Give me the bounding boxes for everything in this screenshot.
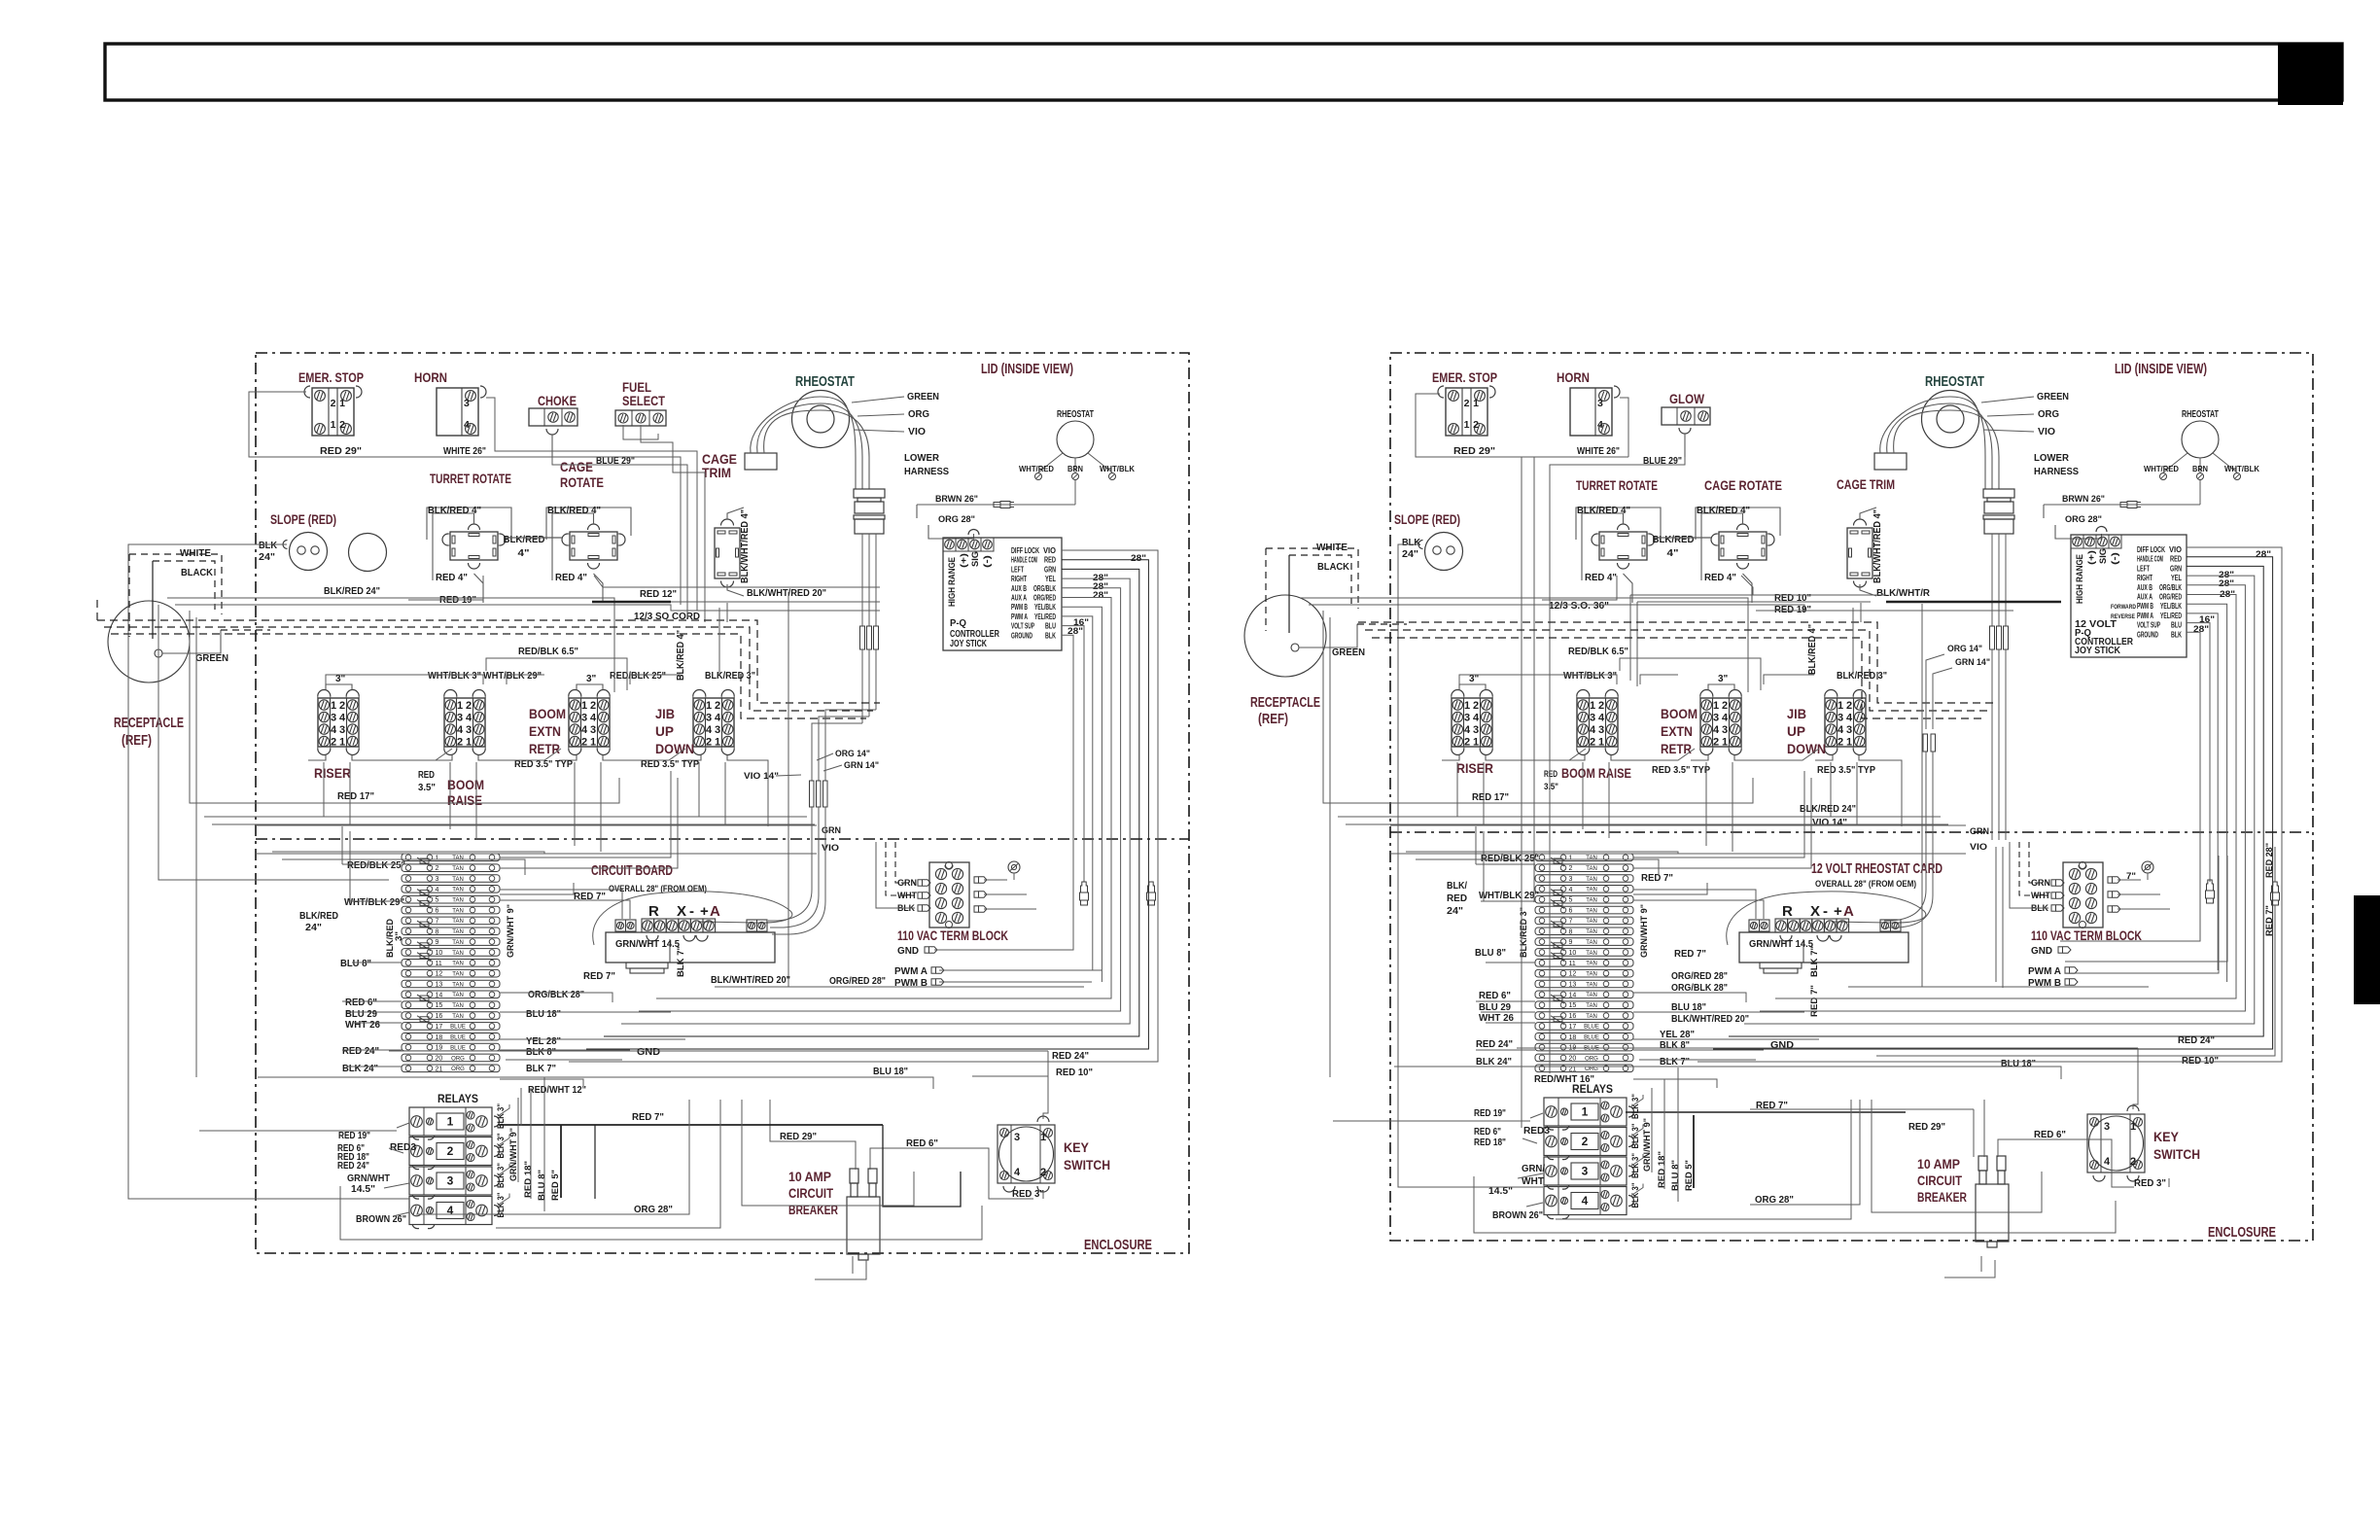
svg-text:RED 6": RED 6" xyxy=(1474,1127,1501,1137)
svg-text:UP: UP xyxy=(1787,723,1805,739)
svg-text:2: 2 xyxy=(581,737,587,749)
svg-text:CIRCUIT BOARD: CIRCUIT BOARD xyxy=(591,862,673,879)
svg-text:VIO 14": VIO 14" xyxy=(744,771,779,782)
svg-text:RED 19": RED 19" xyxy=(338,1131,370,1141)
svg-text:GRN: GRN xyxy=(822,825,841,836)
key switch and 10 amp circuit breaker (right) xyxy=(2087,1114,2145,1172)
svg-text:BLK/RED 4": BLK/RED 4" xyxy=(428,505,481,516)
svg-text:3: 3 xyxy=(1846,724,1852,736)
svg-text:RAISE: RAISE xyxy=(447,792,482,808)
svg-text:BLK/RED 3": BLK/RED 3" xyxy=(705,670,755,682)
svg-text:YEL/RED: YEL/RED xyxy=(1034,612,1056,621)
svg-text:BLUE: BLUE xyxy=(450,1025,466,1031)
svg-text:28": 28" xyxy=(1067,626,1083,636)
svg-text:BLU 18": BLU 18" xyxy=(873,1066,908,1077)
svg-text:BOOM: BOOM xyxy=(1661,706,1697,721)
turret rotate / cage rotate solenoid valves (left) xyxy=(450,532,498,560)
svg-text:FORWARD: FORWARD xyxy=(2111,604,2136,611)
svg-text:BLUE: BLUE xyxy=(450,1035,466,1041)
svg-text:2: 2 xyxy=(1713,737,1719,749)
svg-text:ORG/BLK 28": ORG/BLK 28" xyxy=(1671,982,1728,994)
svg-text:10: 10 xyxy=(1569,950,1577,957)
svg-text:LEFT: LEFT xyxy=(2137,564,2150,573)
svg-text:21: 21 xyxy=(436,1066,443,1072)
svg-text:2: 2 xyxy=(1464,737,1470,749)
svg-text:BREAKER: BREAKER xyxy=(1917,1190,1967,1205)
svg-text:WHT/BLK 29": WHT/BLK 29" xyxy=(1479,890,1539,901)
svg-text:RETR: RETR xyxy=(529,741,560,756)
svg-text:RHEOSTAT: RHEOSTAT xyxy=(1057,408,1094,420)
svg-text:BLK/RED 3": BLK/RED 3" xyxy=(1519,907,1529,958)
svg-text:RED 3.5" TYP: RED 3.5" TYP xyxy=(1817,764,1875,776)
svg-text:RED 17": RED 17" xyxy=(1472,791,1509,803)
svg-text:DIFF LOCK: DIFF LOCK xyxy=(2137,545,2165,554)
svg-text:4: 4 xyxy=(1722,713,1729,724)
svg-text:1: 1 xyxy=(1569,855,1573,861)
svg-text:EXTN: EXTN xyxy=(1661,723,1693,739)
svg-text:ORG 28": ORG 28" xyxy=(634,1204,673,1215)
svg-text:UP: UP xyxy=(655,723,674,739)
svg-text:24": 24" xyxy=(1447,905,1463,917)
long horizontal harness wires (left) xyxy=(204,816,807,818)
svg-text:4: 4 xyxy=(1837,724,1844,736)
svg-text:YEL/BLK: YEL/BLK xyxy=(1034,603,1056,612)
svg-text:BOOM: BOOM xyxy=(447,777,484,792)
svg-text:3: 3 xyxy=(590,724,596,736)
svg-text:TAN: TAN xyxy=(1586,898,1597,904)
relay coil connection wires (right) xyxy=(1530,1113,1543,1118)
svg-text:BROWN 26": BROWN 26" xyxy=(1492,1209,1543,1221)
svg-text:5: 5 xyxy=(1569,897,1573,904)
wires BLK/RED 24 and RED 17 (left) xyxy=(167,598,614,692)
header title bar xyxy=(105,44,2342,100)
enclosure dashed border (left) xyxy=(256,353,1189,1253)
svg-text:RED: RED xyxy=(1544,769,1557,780)
svg-text:2: 2 xyxy=(2130,1156,2136,1168)
svg-text:ORG: ORG xyxy=(1585,1067,1598,1072)
svg-text:GREEN: GREEN xyxy=(2037,391,2069,402)
svg-text:RED 19": RED 19" xyxy=(1774,604,1811,615)
svg-text:-: - xyxy=(689,903,694,920)
svg-text:LEFT: LEFT xyxy=(1011,565,1024,574)
svg-text:28": 28" xyxy=(1131,553,1146,563)
svg-text:17: 17 xyxy=(436,1024,443,1031)
svg-text:RHEOSTAT: RHEOSTAT xyxy=(2182,408,2219,420)
svg-text:AUX A: AUX A xyxy=(2137,593,2152,602)
page edge black tab xyxy=(2354,895,2380,1004)
svg-text:1: 1 xyxy=(1598,737,1604,749)
svg-text:7: 7 xyxy=(1569,918,1573,925)
svg-text:3: 3 xyxy=(581,713,587,724)
dashed feed wires to 110 VAC block (left) xyxy=(895,842,915,883)
svg-text:TAN: TAN xyxy=(452,982,464,988)
svg-text:RED/BLK 6.5": RED/BLK 6.5" xyxy=(1568,646,1628,657)
svg-text:3": 3" xyxy=(1718,674,1729,684)
svg-text:SIG: SIG xyxy=(2098,548,2109,564)
svg-text:VIO 14": VIO 14" xyxy=(1812,817,1847,828)
svg-text:BLK 7": BLK 7" xyxy=(526,1063,556,1074)
svg-text:RED 12": RED 12" xyxy=(640,588,677,600)
svg-text:RED 24": RED 24" xyxy=(342,1045,379,1057)
svg-text:3": 3" xyxy=(1469,674,1480,684)
svg-text:JIB: JIB xyxy=(655,706,675,721)
svg-text:BRN: BRN xyxy=(1067,464,1083,473)
long horizontal harness wires (right) xyxy=(1338,816,1941,818)
svg-text:15: 15 xyxy=(1569,1002,1577,1009)
wires RED/BLK 6.5 and 3 inch links (right) xyxy=(1620,658,1761,690)
joystick output wire staircase (left) xyxy=(569,550,1158,1062)
receptacle (ref) (left) xyxy=(108,601,190,682)
svg-text:RED 18": RED 18" xyxy=(1474,1137,1506,1148)
svg-text:CAGE ROTATE: CAGE ROTATE xyxy=(1704,477,1782,493)
svg-text:BLK/RED: BLK/RED xyxy=(1653,534,1695,545)
12/3 SO cord dashed bundle (right) xyxy=(1358,622,1998,703)
svg-text:GRN: GRN xyxy=(1044,565,1056,574)
svg-text:RED 7": RED 7" xyxy=(1641,872,1673,884)
wire BLK/WHT/RED 20 (right) xyxy=(1860,603,1862,622)
svg-text:PWM B: PWM B xyxy=(2137,602,2153,611)
svg-text:WHITE 26": WHITE 26" xyxy=(1577,445,1620,457)
svg-text:4: 4 xyxy=(706,724,713,736)
svg-text:RED 7": RED 7" xyxy=(632,1111,664,1123)
svg-text:JOY STICK: JOY STICK xyxy=(950,639,988,649)
svg-text:3: 3 xyxy=(1598,724,1604,736)
RISER contactor (right) xyxy=(1452,698,1492,747)
svg-text:14: 14 xyxy=(436,992,443,998)
svg-text:BLK 24": BLK 24" xyxy=(342,1063,378,1074)
svg-text:(REF): (REF) xyxy=(122,733,152,749)
svg-text:PWM A: PWM A xyxy=(2028,965,2061,977)
svg-text:(-): (-) xyxy=(2110,552,2120,565)
svg-text:3": 3" xyxy=(335,674,346,684)
svg-text:RECEPTACLE: RECEPTACLE xyxy=(1250,695,1320,711)
svg-text:RED/BLK 25": RED/BLK 25" xyxy=(347,859,405,871)
svg-text:3: 3 xyxy=(1837,713,1843,724)
svg-text:BLK: BLK xyxy=(1402,537,1420,548)
svg-text:VIO: VIO xyxy=(2169,545,2182,554)
svg-text:3.5": 3.5" xyxy=(418,783,436,793)
svg-text:3": 3" xyxy=(394,931,404,941)
svg-text:BLK 8": BLK 8" xyxy=(526,1046,556,1058)
svg-text:2: 2 xyxy=(1473,419,1479,431)
svg-text:TAN: TAN xyxy=(452,888,464,893)
svg-text:CIRCUIT: CIRCUIT xyxy=(788,1186,834,1201)
svg-text:2: 2 xyxy=(447,1144,454,1158)
svg-text:BLUE: BLUE xyxy=(1584,1035,1599,1041)
svg-text:AUX B: AUX B xyxy=(2137,583,2152,592)
svg-text:WHT/RED: WHT/RED xyxy=(2144,464,2179,473)
svg-text:RHEOSTAT: RHEOSTAT xyxy=(795,374,855,390)
svg-text:3: 3 xyxy=(1582,1165,1589,1178)
wires RED 29 / RED 6 / RED 3 to breaker and key switch (left) xyxy=(770,1100,856,1170)
svg-text:HARNESS: HARNESS xyxy=(2034,466,2079,477)
svg-text:BLACK: BLACK xyxy=(181,567,213,578)
svg-text:2: 2 xyxy=(1040,1167,1046,1178)
svg-text:GRN: GRN xyxy=(2170,564,2182,573)
svg-text:-: - xyxy=(1823,903,1828,920)
svg-text:TAN: TAN xyxy=(1586,971,1597,977)
wire RED 12 / RED 10 (left) xyxy=(594,576,880,587)
svg-text:A: A xyxy=(1843,903,1854,920)
svg-text:24": 24" xyxy=(305,922,322,933)
svg-text:3: 3 xyxy=(1473,724,1479,736)
svg-text:HARNESS: HARNESS xyxy=(904,466,949,477)
svg-text:4: 4 xyxy=(590,713,597,724)
wires: RED 29 / WHITE 26 / BLUE 29 runs (right) xyxy=(1416,394,1628,457)
svg-text:GRN/WHT 9": GRN/WHT 9" xyxy=(506,904,516,958)
svg-text:EMER. STOP: EMER. STOP xyxy=(298,369,364,385)
svg-text:1: 1 xyxy=(457,700,463,712)
110 VAC output spade wires and ground lug (left) xyxy=(984,879,1007,881)
svg-text:16: 16 xyxy=(436,1013,443,1020)
svg-text:28": 28" xyxy=(1093,590,1108,600)
svg-text:RED 5": RED 5" xyxy=(550,1170,561,1201)
svg-text:2: 2 xyxy=(1846,700,1852,712)
svg-text:RISER: RISER xyxy=(1456,760,1493,776)
lid/enclosure divider dashed line (left) xyxy=(256,838,1189,840)
svg-text:4: 4 xyxy=(447,1204,454,1217)
svg-text:YEL: YEL xyxy=(2171,574,2182,582)
svg-text:RED 3.5" TYP: RED 3.5" TYP xyxy=(1652,764,1710,776)
svg-text:WHT 26: WHT 26 xyxy=(345,1019,380,1031)
svg-text:RED 3": RED 3" xyxy=(2134,1177,2166,1189)
svg-text:3: 3 xyxy=(464,398,470,409)
svg-text:BOOM: BOOM xyxy=(529,706,566,721)
svg-text:X: X xyxy=(1810,903,1820,920)
header black square xyxy=(2278,43,2343,105)
svg-text:RED 6": RED 6" xyxy=(2034,1129,2066,1140)
svg-text:TAN: TAN xyxy=(1586,940,1597,946)
svg-text:BLK/: BLK/ xyxy=(1447,880,1467,892)
svg-text:CIRCUIT: CIRCUIT xyxy=(1917,1173,1963,1188)
svg-text:DOWN: DOWN xyxy=(1787,741,1826,756)
svg-text:4: 4 xyxy=(331,724,337,736)
svg-text:TAN: TAN xyxy=(1586,1003,1597,1009)
svg-text:4: 4 xyxy=(436,887,439,893)
svg-text:RED: RED xyxy=(1447,892,1467,904)
svg-text:BRN: BRN xyxy=(2192,464,2208,473)
svg-text:4: 4 xyxy=(466,713,472,724)
svg-text:WHITE: WHITE xyxy=(1316,542,1347,553)
svg-text:1: 1 xyxy=(706,700,712,712)
svg-text:RED: RED xyxy=(1044,556,1056,565)
svg-text:LOWER: LOWER xyxy=(2034,452,2069,464)
terminal strip left connection wires (right) xyxy=(1476,863,1535,865)
svg-text:4: 4 xyxy=(2104,1156,2111,1168)
JIB UP DOWN contactor (left) xyxy=(693,698,734,747)
key switch and 10 amp circuit breaker (left) xyxy=(997,1125,1055,1183)
svg-text:WHT/BLK: WHT/BLK xyxy=(1100,464,1136,473)
svg-text:BLU: BLU xyxy=(1045,622,1056,631)
svg-text:PWM A: PWM A xyxy=(1011,612,1028,621)
svg-text:CAGE TRIM: CAGE TRIM xyxy=(1837,476,1895,492)
svg-text:WHITE: WHITE xyxy=(180,547,211,559)
svg-text:3: 3 xyxy=(1597,398,1603,409)
svg-text:2: 2 xyxy=(1590,737,1595,749)
svg-text:HANDLE COM: HANDLE COM xyxy=(1011,556,1037,565)
svg-text:GRN/WHT 9": GRN/WHT 9" xyxy=(508,1128,519,1181)
lower harness cable wires crossing divider (right) xyxy=(1995,847,1997,982)
receptacle (ref) (right) xyxy=(1244,595,1326,677)
svg-text:TAN: TAN xyxy=(452,962,464,967)
svg-text:HORN: HORN xyxy=(414,369,447,385)
svg-text:1: 1 xyxy=(1846,737,1852,749)
svg-text:RED 4": RED 4" xyxy=(1704,572,1736,583)
svg-text:DOWN: DOWN xyxy=(655,741,694,756)
svg-text:GROUND: GROUND xyxy=(2137,630,2158,639)
svg-text:HANDLE COM: HANDLE COM xyxy=(2137,555,2163,564)
svg-text:X: X xyxy=(677,903,686,920)
contactor bottom drop wires (right) xyxy=(1456,762,1458,817)
svg-text:2: 2 xyxy=(457,737,463,749)
svg-text:4: 4 xyxy=(457,724,464,736)
svg-text:TAN: TAN xyxy=(1586,856,1597,861)
svg-text:VOLT SUP: VOLT SUP xyxy=(1011,622,1034,631)
GND / PWM A / PWM B wires (right) xyxy=(2060,892,2200,941)
110 VAC term block (right) xyxy=(2063,862,2103,927)
svg-text:1: 1 xyxy=(466,737,472,749)
svg-text:7: 7 xyxy=(436,918,439,925)
svg-text:1: 1 xyxy=(715,737,720,749)
svg-text:24": 24" xyxy=(259,551,275,563)
relay BLK 3 wires (right) xyxy=(1631,1095,1643,1106)
svg-text:RED 6": RED 6" xyxy=(906,1137,938,1149)
svg-text:BLACK: BLACK xyxy=(1317,561,1349,573)
svg-text:P-Q: P-Q xyxy=(950,618,966,629)
svg-text:110 VAC TERM BLOCK: 110 VAC TERM BLOCK xyxy=(897,928,1008,943)
wire BLK 24 from slope sensor (right) xyxy=(1398,544,1543,1187)
wires RED/BLK 6.5 and 3 inch links (left) xyxy=(486,658,627,690)
svg-text:RED 7": RED 7" xyxy=(1674,948,1706,960)
svg-text:15: 15 xyxy=(436,1002,443,1009)
P-Q controller joy stick (left) xyxy=(943,538,1062,650)
svg-text:8: 8 xyxy=(436,928,439,935)
svg-text:7": 7" xyxy=(2126,871,2136,882)
svg-text:4": 4" xyxy=(518,547,530,559)
svg-text:8: 8 xyxy=(1569,928,1573,935)
svg-text:ORG/RED 28": ORG/RED 28" xyxy=(829,975,886,987)
svg-text:4: 4 xyxy=(1582,1194,1589,1207)
svg-text:BLK/RED: BLK/RED xyxy=(504,534,545,545)
svg-text:ORG: ORG xyxy=(908,408,929,420)
svg-text:BLU 8": BLU 8" xyxy=(1670,1160,1681,1191)
svg-text:BLK/WHT/RED 20": BLK/WHT/RED 20" xyxy=(1671,1013,1749,1025)
svg-text:RED 6": RED 6" xyxy=(345,997,377,1008)
svg-text:4: 4 xyxy=(1473,713,1480,724)
svg-text:4: 4 xyxy=(1590,724,1596,736)
svg-text:9: 9 xyxy=(1569,939,1573,946)
wire BLK 24 from slope sensor (left) xyxy=(128,544,409,1199)
svg-text:ORG 28": ORG 28" xyxy=(938,514,975,525)
svg-text:BLK/WHT/RED 20": BLK/WHT/RED 20" xyxy=(747,587,826,599)
svg-text:2: 2 xyxy=(1722,700,1728,712)
svg-text:BOOM RAISE: BOOM RAISE xyxy=(1561,765,1631,781)
lid/enclosure divider dashed line (right) xyxy=(1390,831,2313,833)
svg-text:VIO: VIO xyxy=(822,843,839,854)
svg-text:GREEN: GREEN xyxy=(907,391,939,402)
svg-text:20: 20 xyxy=(1569,1055,1577,1062)
svg-text:LID (INSIDE VIEW): LID (INSIDE VIEW) xyxy=(2115,361,2207,377)
svg-text:TAN: TAN xyxy=(452,898,464,904)
enclosure dashed border (right) xyxy=(1390,353,2313,1241)
svg-text:TAN: TAN xyxy=(452,856,464,861)
svg-text:BLK/RED 4": BLK/RED 4" xyxy=(676,630,686,681)
svg-text:3: 3 xyxy=(466,724,472,736)
svg-text:BLU 18": BLU 18" xyxy=(2001,1058,2036,1069)
svg-text:BLK/RED 4": BLK/RED 4" xyxy=(1577,505,1630,516)
svg-text:ORG/RED: ORG/RED xyxy=(2159,593,2182,602)
svg-text:PWM B: PWM B xyxy=(1011,603,1028,612)
svg-text:BRWN 26": BRWN 26" xyxy=(2062,494,2105,505)
svg-text:ORG 14": ORG 14" xyxy=(1947,644,1982,654)
svg-text:RED 24": RED 24" xyxy=(1476,1038,1513,1050)
svg-text:GRN/WHT 9": GRN/WHT 9" xyxy=(1642,1118,1653,1172)
svg-text:BLK/WHT/RED 4": BLK/WHT/RED 4" xyxy=(1872,509,1883,583)
svg-text:11: 11 xyxy=(1569,961,1576,967)
fuse/diode terminal strip rows 1-21 (left) xyxy=(402,854,500,861)
svg-text:2: 2 xyxy=(331,398,336,409)
svg-text:TURRET ROTATE: TURRET ROTATE xyxy=(1576,477,1658,493)
svg-text:2: 2 xyxy=(436,865,439,872)
svg-text:BLK/RED 4": BLK/RED 4" xyxy=(547,505,601,516)
svg-text:CHOKE: CHOKE xyxy=(538,394,577,408)
svg-text:RED 7": RED 7" xyxy=(1809,985,1820,1017)
svg-text:3: 3 xyxy=(457,713,463,724)
svg-text:24": 24" xyxy=(1402,548,1418,560)
RISER contactor (left) xyxy=(318,698,359,747)
svg-text:BRWN 26": BRWN 26" xyxy=(935,494,978,505)
svg-text:WHT/BLK: WHT/BLK xyxy=(2224,464,2260,473)
BOOM RAISE contactor (right) xyxy=(1577,698,1618,747)
svg-text:4: 4 xyxy=(464,419,470,431)
svg-text:GRN/WHT 9": GRN/WHT 9" xyxy=(1639,904,1650,958)
svg-text:(REF): (REF) xyxy=(1258,712,1288,727)
svg-text:1: 1 xyxy=(1713,700,1719,712)
svg-text:ORG: ORG xyxy=(1585,1056,1598,1062)
svg-text:4: 4 xyxy=(1846,713,1853,724)
svg-text:BLK/RED 4": BLK/RED 4" xyxy=(1697,505,1750,516)
svg-text:1: 1 xyxy=(339,737,345,749)
svg-text:TAN: TAN xyxy=(452,951,464,957)
BOOM RAISE contactor (left) xyxy=(444,698,485,747)
svg-text:RED 7": RED 7" xyxy=(2264,905,2275,936)
svg-text:TAN: TAN xyxy=(1586,951,1597,957)
svg-text:RED 18": RED 18" xyxy=(523,1161,534,1198)
cage trim connector (right) xyxy=(1847,528,1872,578)
svg-text:ORG 14": ORG 14" xyxy=(835,749,870,759)
svg-text:BLU 8": BLU 8" xyxy=(1475,947,1506,959)
relay coil connection wires (left) xyxy=(397,1123,409,1128)
svg-text:RED: RED xyxy=(418,770,435,781)
svg-text:RED 4": RED 4" xyxy=(555,572,587,583)
svg-text:+: + xyxy=(1834,903,1842,920)
svg-text:HORN: HORN xyxy=(1557,369,1590,385)
JIB UP DOWN contactor (right) xyxy=(1825,698,1866,747)
svg-text:4: 4 xyxy=(1569,887,1573,893)
svg-text:16: 16 xyxy=(1569,1013,1577,1020)
svg-text:RED 29": RED 29" xyxy=(320,445,362,457)
svg-text:JIB: JIB xyxy=(1787,706,1806,721)
svg-text:BLK: BLK xyxy=(259,540,277,551)
terminal strip left connection wires (left) xyxy=(342,863,402,865)
svg-text:3: 3 xyxy=(1590,713,1595,724)
svg-text:BLK/RED: BLK/RED xyxy=(299,910,338,922)
svg-text:5: 5 xyxy=(436,897,439,904)
svg-text:BLK: BLK xyxy=(2171,630,2182,639)
svg-text:1: 1 xyxy=(1464,700,1470,712)
svg-text:AUX A: AUX A xyxy=(1011,594,1027,603)
svg-text:2: 2 xyxy=(466,700,472,712)
